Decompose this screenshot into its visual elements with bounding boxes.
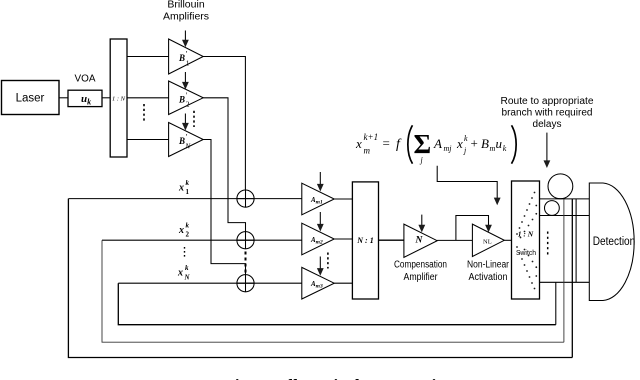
svg-text:k: k [185, 264, 189, 272]
svg-text:1: 1 [186, 58, 190, 67]
svg-text:2: 2 [186, 100, 190, 109]
feedback vertical right branch 1 [571, 199, 573, 358]
svg-text:k: k [186, 179, 190, 187]
svg-text:+: + [471, 136, 478, 151]
svg-text:′: ′ [186, 91, 188, 100]
delay loop big [548, 174, 573, 199]
svg-text:Amplifiers: Amplifiers [163, 11, 209, 23]
svg-text:Amplifier: Amplifier [404, 272, 439, 283]
amplifier B'2 [169, 81, 204, 115]
svg-text:k+1: k+1 [364, 132, 379, 142]
row 3 wire xN [118, 282, 301, 284]
dashed ellipsis between adder 2 and adder 3 [245, 252, 247, 274]
svg-text:u: u [496, 136, 503, 151]
svg-text:Compensation: Compensation [394, 260, 447, 271]
svg-text:B: B [178, 53, 185, 63]
svg-text:B: B [178, 136, 185, 146]
svg-text:B: B [481, 136, 489, 151]
dotted ellipsis between B'2 and B'N [193, 111, 195, 127]
wire splitter to BN [127, 139, 169, 141]
formula big left paren [408, 125, 413, 163]
branch line 2 to detection [540, 215, 590, 217]
state equation formula [355, 129, 507, 165]
vertical stub line [575, 199, 577, 282]
svg-text:1 : N: 1 : N [112, 95, 126, 102]
amplifier Am1 [302, 183, 334, 215]
svg-text:1: 1 [186, 188, 190, 196]
amplifier Am3 [302, 267, 334, 299]
svg-text:′: ′ [186, 133, 188, 142]
amplifier B'1 [169, 39, 204, 74]
wire B'1 output down to adder 1 [203, 57, 245, 191]
svg-text:k: k [503, 144, 507, 153]
pump arrow into Am1 [319, 172, 321, 185]
detection block [589, 183, 634, 301]
switch fan dots [516, 192, 537, 290]
delay loop small [545, 201, 560, 216]
svg-text:N: N [415, 235, 424, 245]
svg-text:x: x [355, 136, 362, 151]
wire compensation amp to NL [437, 239, 472, 241]
dotted ellipsis between x2 and xN [184, 247, 186, 259]
wire NL to switch [504, 239, 511, 241]
formula pointer line [437, 166, 497, 199]
svg-text:N: N [184, 274, 191, 282]
VOA box u_k [68, 90, 102, 106]
svg-text:x: x [178, 183, 184, 194]
amplifier Am2 [302, 223, 334, 255]
svg-text:=: = [383, 136, 390, 151]
svg-text:delays: delays [533, 119, 562, 130]
wire splitter to B1 [127, 56, 169, 58]
pump arrow into compensation amplifier [421, 215, 423, 226]
wire splitter to B2 [127, 97, 169, 99]
wire Am1 to combiner [334, 198, 352, 200]
formula big right paren [512, 125, 517, 163]
svg-text:′: ′ [186, 50, 188, 59]
svg-text:N: N [184, 141, 191, 150]
combiner N:1 box [352, 182, 378, 299]
feedback bottom wire inner [118, 283, 556, 325]
pump arrow into Am2 [319, 212, 321, 225]
feedback bottom wire middle [102, 240, 564, 342]
route arrow [546, 133, 548, 162]
tap hook over NL activation [456, 216, 489, 241]
svg-text:VOA: VOA [75, 73, 96, 85]
switch 1:N box [512, 181, 540, 299]
dashed ellipsis more branches [547, 232, 549, 258]
svg-text:Non-Linear: Non-Linear [467, 260, 510, 271]
amplifier B'N [169, 123, 204, 157]
svg-text:B: B [178, 94, 185, 104]
svg-text:2: 2 [186, 231, 190, 239]
feedback bottom wire outer [68, 199, 572, 358]
dotted ellipsis splitter outputs [143, 104, 145, 121]
wire B'N output jog to adder 3 [203, 140, 245, 275]
dotted ellipsis between Am2 and Am3 [327, 253, 329, 269]
adder 3 [237, 275, 254, 292]
row 1 wire x1 [68, 198, 301, 200]
laser box [2, 81, 60, 115]
feedback vertical right branch 2 [563, 199, 565, 342]
row 2 wire x2 [102, 239, 302, 241]
wire Am3 to combiner [334, 282, 352, 284]
svg-text:Laser: Laser [16, 93, 45, 105]
svg-text:N : 1: N : 1 [356, 236, 373, 245]
wire B'2 output jog to adder 2 [203, 98, 245, 232]
adder 1 [237, 190, 254, 207]
svg-text:k: k [186, 222, 190, 230]
wire combiner to compensation amplifier [379, 239, 404, 241]
svg-text:Route to appropriate: Route to appropriate [501, 96, 594, 107]
svg-text:A: A [433, 136, 442, 151]
svg-text:Σ: Σ [414, 129, 432, 159]
splitter 1:N box [110, 39, 127, 157]
branch line 1 to detection [540, 198, 590, 200]
wire laser to VOA [59, 97, 68, 99]
non-linear activation triangle [472, 224, 504, 256]
adder 2 [237, 232, 254, 249]
svg-text:Detection: Detection [593, 236, 636, 248]
svg-text:k: k [464, 134, 468, 143]
svg-text:m: m [364, 146, 371, 156]
feedback vertical right branch N [555, 282, 557, 324]
branch line N to detection [540, 281, 590, 283]
svg-text:Brillouin: Brillouin [167, 0, 205, 11]
pump arrow into Am3 [319, 257, 321, 270]
pump arrow into B'2 [184, 72, 186, 84]
pump arrow into B'1 [184, 31, 186, 42]
compensation amplifier [404, 224, 437, 257]
svg-text:x: x [177, 268, 183, 279]
svg-text:mj: mj [444, 144, 453, 153]
svg-text:x: x [178, 225, 184, 236]
wire Am2 to combiner [334, 238, 352, 240]
svg-text:x: x [456, 136, 463, 151]
pump arrow into B'N [184, 114, 186, 125]
svg-text:NL: NL [483, 238, 492, 245]
svg-text:branch with required: branch with required [502, 107, 593, 118]
svg-text:Activation: Activation [469, 272, 508, 283]
wire VOA to splitter [102, 97, 110, 99]
